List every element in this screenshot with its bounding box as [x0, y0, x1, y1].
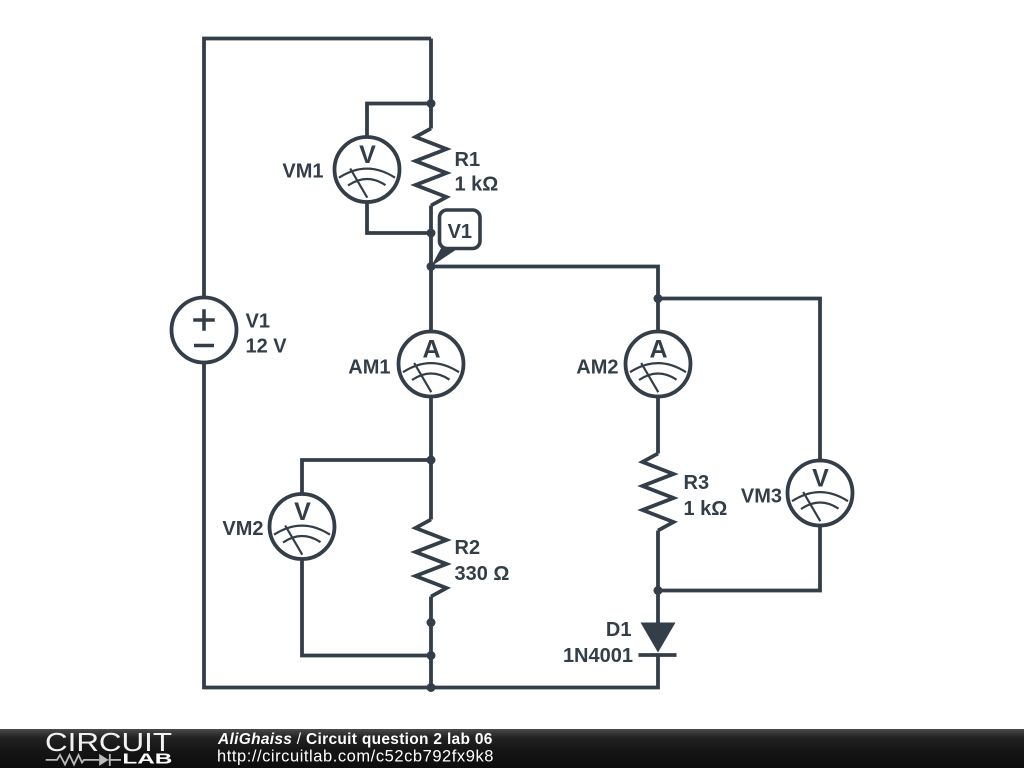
svg-text:V: V — [812, 464, 829, 492]
svg-text:D1: D1 — [606, 619, 632, 641]
ammeter AM1 — [399, 332, 464, 397]
footer bar — [0, 729, 1024, 768]
wire: main vertical from top rail to R1 — [429, 39, 433, 129]
junction VM2 top tap — [427, 456, 436, 465]
junction at top of R1 / VM1 tap — [427, 99, 436, 108]
svg-text:1 kΩ: 1 kΩ — [684, 498, 728, 520]
voltmeter VM3 — [788, 461, 853, 526]
voltmeter VM1 — [335, 137, 400, 202]
node V1 junction — [427, 262, 436, 271]
CircuitLab logo resistor-diode glyph — [46, 754, 121, 766]
svg-text:1 kΩ: 1 kΩ — [455, 173, 499, 195]
svg-text:A: A — [649, 335, 667, 363]
junction bottom rail — [427, 683, 436, 692]
svg-text:AliGhaiss / Circuit question 2: AliGhaiss / Circuit question 2 lab 06 — [217, 731, 493, 748]
wire: AM2 bottom to R3 top — [656, 397, 660, 454]
wire: R3 bottom to diode D1 — [656, 531, 660, 624]
svg-text:V: V — [359, 141, 376, 169]
svg-text:VM3: VM3 — [741, 485, 782, 507]
junction VM3 top tap — [654, 294, 663, 303]
voltage source V1 — [172, 298, 237, 363]
svg-text:AM1: AM1 — [348, 356, 390, 378]
junction R2 bottom — [427, 618, 436, 627]
svg-text:R2: R2 — [455, 537, 481, 559]
voltmeter VM2 — [270, 494, 335, 559]
wire: R1 bottom to AM1 top (node V1) — [429, 206, 433, 332]
wire: VM1 bottom branch — [367, 202, 431, 233]
node label V1 bubble — [431, 210, 480, 267]
svg-text:R3: R3 — [684, 472, 710, 494]
wire: R2 bottom to bottom rail — [429, 597, 433, 688]
svg-text:http://circuitlab.com/c52cb792: http://circuitlab.com/c52cb792fx9k8 — [217, 748, 494, 766]
svg-text:12 V: 12 V — [246, 336, 288, 358]
wire: AM1 bottom to R2 top — [429, 397, 433, 520]
wire: top rail and left rail to V1 top — [204, 39, 431, 298]
svg-text:1N4001: 1N4001 — [563, 645, 633, 667]
svg-text:AM2: AM2 — [576, 356, 618, 378]
diode D1 — [639, 623, 677, 656]
resistor R2 body — [416, 520, 447, 597]
wire: VM1 top branch — [367, 104, 431, 138]
junction VM2 bottom tap — [427, 651, 436, 660]
svg-text:LAB: LAB — [122, 752, 172, 768]
junction VM3 bottom tap / diode top — [654, 586, 663, 595]
wire: V1 bottom lead, left rail down, bottom rail to diode — [204, 363, 658, 688]
svg-text:VM1: VM1 — [282, 160, 323, 182]
wire: VM2 bottom branch — [302, 560, 431, 656]
svg-text:VM2: VM2 — [222, 518, 263, 540]
wire: VM2 top branch — [302, 460, 431, 494]
svg-text:330 Ω: 330 Ω — [455, 563, 510, 585]
resistor R3 body — [643, 454, 674, 531]
svg-text:A: A — [422, 335, 440, 363]
svg-text:V: V — [294, 498, 311, 526]
junction at R1 bottom / VM1 tap — [427, 229, 436, 238]
wire: node V1 to AM2 top — [431, 267, 658, 332]
svg-text:V1: V1 — [246, 311, 270, 333]
svg-text:V1: V1 — [448, 221, 472, 243]
resistor R1 body — [416, 129, 447, 206]
wire: VM3 bottom branch — [658, 526, 820, 591]
ammeter AM2 — [626, 332, 691, 397]
svg-text:R1: R1 — [455, 149, 481, 171]
wire: VM3 top branch — [658, 299, 820, 461]
